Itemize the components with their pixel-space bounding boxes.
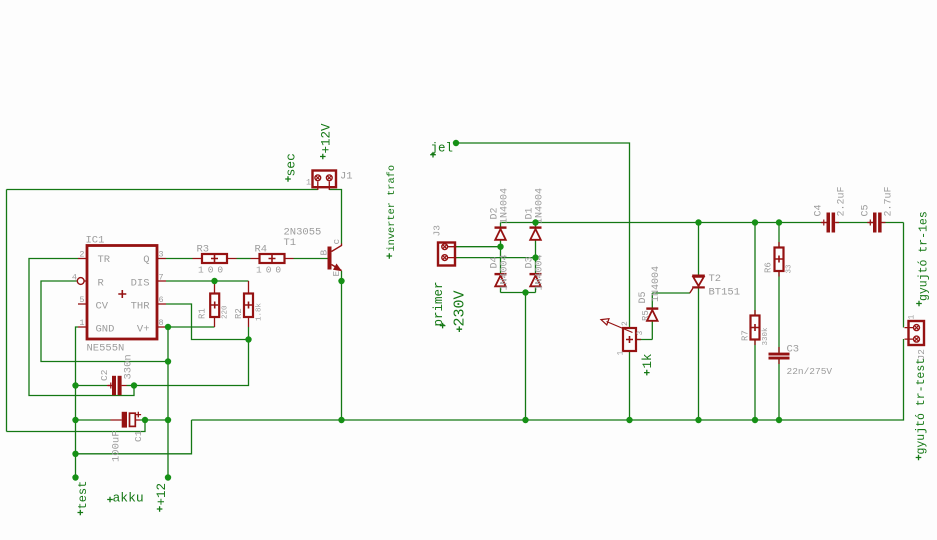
junction R2 bottom THR (245, 336, 251, 342)
net label gyujto tr-test (915, 358, 928, 460)
wire C1 left to test rail (76, 419, 111, 421)
node test end (72, 474, 78, 480)
svg-text:R6: R6 (764, 262, 774, 273)
svg-text:gyujtó tr-test: gyujtó tr-test (915, 358, 928, 455)
diode D3 body (530, 274, 542, 286)
wire T2 cathode to bottom bus (698, 288, 700, 420)
svg-text:6: 6 (159, 295, 164, 305)
net label 1k (641, 353, 655, 375)
svg-text:+12: +12 (155, 483, 169, 506)
connector J3 body (438, 243, 457, 266)
op-amp/timer IC1 NE555N body (87, 246, 157, 340)
net label akku (107, 491, 144, 506)
diode D5 body (646, 309, 658, 321)
net label gyujto tr-1es (916, 211, 930, 306)
junction R7 top on top bus (752, 219, 758, 225)
capacitor C2 body (107, 376, 127, 395)
wire left border bottom to C1 right (7, 420, 146, 432)
junction R1 top on DIS (211, 278, 217, 284)
svg-text:1: 1 (79, 318, 84, 328)
connector J2 body (905, 321, 925, 345)
wire R3 to R4 (237, 258, 251, 260)
wire IC1 Q pin3 to R3 (166, 258, 193, 260)
wire R7 column top (754, 223, 756, 316)
svg-text:T2: T2 (709, 273, 722, 285)
wire +12 rail vertical (167, 327, 169, 478)
wire D5 anode to R5 wiper (636, 321, 652, 340)
svg-text:33: 33 (786, 264, 794, 274)
svg-text:GND: GND (96, 324, 115, 336)
svg-text:3: 3 (636, 331, 645, 336)
junction bridge bottom (522, 289, 528, 295)
svg-text:D5: D5 (638, 291, 649, 303)
wire C2 right to THR node (127, 385, 135, 387)
junction T1 emitter (338, 278, 344, 284)
junction bridge on bottom bus (522, 417, 528, 423)
capacitor C3 body (769, 347, 790, 364)
wire IC1 DIS pin7 to R1/R2 tops (166, 280, 249, 282)
svg-text:sec: sec (283, 153, 298, 176)
svg-text:THR: THR (131, 301, 151, 313)
svg-text:1k: 1k (641, 353, 655, 368)
IC1 pin 7 DIS stub (157, 280, 166, 282)
svg-text:R2: R2 (234, 308, 244, 319)
junction C3 bottom on bottom bus (776, 417, 782, 423)
wire R5 bottom to bottom bus (629, 351, 631, 420)
svg-text:230V: 230V (451, 290, 468, 326)
net label inverter trafo (386, 165, 398, 259)
transistor T1 2N3055 body (328, 244, 343, 272)
junction akku on test rail (72, 451, 78, 457)
svg-text:1N4004: 1N4004 (651, 266, 662, 302)
wire J3 pin2 to bridge (456, 257, 536, 259)
svg-text:5: 5 (79, 295, 84, 305)
net label sec (283, 153, 298, 182)
junction T2 cathode on bottom bus (695, 417, 701, 423)
IC1 pin 4 R stub with inversion bubble (77, 278, 87, 285)
svg-text:CV: CV (96, 301, 109, 313)
wire akku net with step to bottom bus (76, 420, 192, 454)
junction C1 right (142, 417, 148, 423)
net label primer (432, 281, 446, 328)
diode D2 body (495, 228, 507, 240)
svg-text:C3: C3 (787, 344, 800, 356)
svg-text:1: 1 (907, 315, 916, 320)
wire J2 pin1 up to C5 (903, 223, 905, 328)
svg-text:R7: R7 (740, 330, 750, 341)
node +12 end (165, 474, 171, 480)
resistor R7 body (751, 310, 760, 345)
IC1 pin 8 V+ stub (157, 326, 166, 328)
wire R2 bottom green segment (248, 327, 250, 340)
wire bottom bus to J2 pin2 (192, 339, 904, 420)
svg-text:C1: C1 (133, 430, 144, 442)
resistor R1 body (210, 281, 219, 327)
wire C2 left to test rail (76, 385, 108, 387)
svg-text:test: test (76, 481, 90, 510)
junction C1 left on test rail (72, 417, 78, 423)
svg-text:1N4004: 1N4004 (535, 188, 546, 224)
svg-text:R3: R3 (197, 244, 210, 256)
wire IC1 THR pin6 loop to R2 bottom (166, 304, 249, 340)
svg-text:22n/275V: 22n/275V (787, 366, 833, 377)
svg-text:E: E (331, 271, 342, 277)
wire R6 to C3 (778, 271, 780, 353)
connector J1 body (313, 171, 337, 191)
svg-text:inverter trafo: inverter trafo (386, 165, 398, 252)
resistor R2 body (244, 281, 253, 327)
svg-text:3: 3 (159, 250, 164, 260)
diode D4 body (495, 274, 507, 286)
wire left border vertical (6, 190, 8, 432)
IC1 pin 2 TR stub (78, 258, 87, 260)
svg-text:BT151: BT151 (709, 287, 741, 299)
svg-text:1: 1 (617, 351, 626, 356)
wire T1 emitter down to bottom bus (341, 271, 343, 420)
wire bridge output down to bottom bus (525, 293, 527, 421)
wire C1 right to +12 rail (140, 419, 168, 421)
wire top rail from left border to J1 pin1 (7, 189, 318, 191)
svg-text:R1: R1 (198, 308, 208, 319)
wire top AC bus D2 to C4 (501, 222, 823, 224)
resistor R4 body (251, 254, 294, 263)
svg-text:R: R (98, 278, 105, 290)
svg-text:4: 4 (72, 273, 77, 283)
svg-text:V+: V+ (137, 324, 150, 336)
capacitor C4 body (821, 213, 839, 233)
IC1 pin 1 GND stub (78, 326, 87, 328)
junction D1 top on AC bus (532, 219, 538, 225)
svg-text:C5: C5 (860, 204, 871, 216)
wire J3 pin1 to bridge (456, 246, 501, 248)
net label jel (430, 142, 453, 158)
diode D1 body (530, 228, 542, 240)
wire bridge bottom rail (501, 292, 536, 294)
svg-text:C2: C2 (99, 369, 110, 381)
junction R5 on bottom bus (626, 417, 632, 423)
wire D2 column segments (500, 223, 502, 293)
svg-text:NE555N: NE555N (87, 343, 125, 355)
junction R pin loop on +12 rail (165, 358, 171, 364)
svg-text:1: 1 (306, 178, 311, 188)
resistor R6 body (775, 242, 784, 277)
svg-text:akku: akku (113, 491, 144, 506)
junction T2 anode on top bus (695, 219, 701, 225)
wire IC1 V+ pin8 to R1 bottom (166, 326, 215, 328)
svg-text:J1: J1 (340, 171, 353, 183)
svg-text:1.8k: 1.8k (256, 302, 264, 321)
junction R6 top on top bus (776, 219, 782, 225)
svg-text:C4: C4 (814, 204, 825, 216)
IC1 pin 3 Q stub (157, 258, 166, 260)
wire THR node down to C2 right (134, 340, 249, 386)
svg-text:2.7uF: 2.7uF (883, 186, 894, 216)
svg-text:+12V: +12V (319, 123, 333, 154)
wire D1 column segments (535, 223, 537, 293)
svg-text:7: 7 (159, 273, 164, 283)
svg-text:jel: jel (431, 142, 454, 156)
wire R6 column top (778, 223, 780, 248)
junction J3 pin1 bridge (497, 244, 503, 250)
resistor R3 body (193, 254, 237, 263)
wire J1 pin2 down to T1 collector (329, 190, 341, 244)
svg-text:TR: TR (98, 254, 111, 266)
svg-text:1N4004: 1N4004 (500, 254, 511, 290)
wire D5 cathode to T2 gate (652, 293, 690, 309)
svg-text:1N4004: 1N4004 (500, 188, 511, 224)
svg-text:primer: primer (432, 281, 446, 326)
svg-text:100: 100 (198, 265, 227, 276)
svg-text:J3: J3 (432, 225, 443, 237)
wire jel net to R5 top (456, 143, 630, 328)
capacitor C1 body electrolytic (111, 412, 142, 428)
svg-text:330k: 330k (762, 327, 770, 346)
svg-text:c: c (331, 239, 342, 245)
svg-text:220: 220 (222, 305, 230, 319)
junction R7 bottom on bottom bus (752, 417, 758, 423)
net label +12 (155, 483, 169, 512)
net label +12V (319, 123, 333, 159)
junction J3 pin2 bridge (532, 254, 538, 260)
svg-text:100uF: 100uF (110, 430, 122, 462)
svg-text:IC1: IC1 (86, 235, 105, 247)
net label test (76, 481, 90, 516)
wire C3 to bottom bus (778, 359, 780, 420)
svg-text:gyujtó tr-1es: gyujtó tr-1es (917, 211, 930, 301)
wire IC1 R pin4 loop to +12 rail (41, 281, 168, 362)
svg-text:100: 100 (256, 265, 285, 276)
wire IC1 TR pin2 loop to C2 right (29, 259, 134, 396)
junction C2 left on test rail (72, 382, 78, 388)
svg-text:2: 2 (79, 250, 84, 260)
junction emitter on bottom bus (338, 417, 344, 423)
svg-text:8: 8 (159, 318, 164, 328)
net label 230V (451, 290, 468, 332)
capacitor C5 body (867, 213, 885, 233)
svg-text:R4: R4 (255, 244, 268, 256)
potentiometer R5 body (601, 319, 641, 351)
svg-text:B: B (319, 250, 330, 256)
wire T2 anode column (698, 223, 700, 276)
wire IC1 GND pin1 to test rail (76, 327, 79, 478)
svg-text:T1: T1 (284, 237, 297, 249)
node jel start (453, 140, 459, 146)
junction C1 right on +12 rail (165, 417, 171, 423)
IC1 pin 5 CV stub (78, 303, 87, 305)
svg-text:2N3055: 2N3055 (284, 227, 322, 239)
wire R7 column bottom (754, 340, 756, 421)
svg-text:Q: Q (143, 254, 149, 266)
junction C2 right (131, 382, 137, 388)
svg-text:330n: 330n (123, 354, 135, 379)
svg-text:2.2uF: 2.2uF (837, 186, 848, 216)
IC1 pin 6 THR stub (157, 303, 166, 305)
svg-text:2: 2 (621, 321, 630, 326)
junction V+ pin8 (165, 324, 171, 330)
svg-text:DIS: DIS (131, 278, 150, 290)
thyristor T2 BT151 body (690, 276, 705, 293)
wire C5 to right edge corner (882, 222, 904, 224)
wire R4 to T1 base (294, 258, 328, 260)
wire C4 to C5 (836, 222, 873, 224)
